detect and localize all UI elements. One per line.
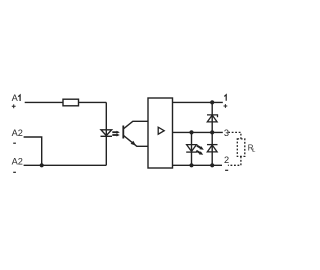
terminal label 1 bbox=[224, 95, 226, 101]
branch wire TVS column bbox=[211, 102, 213, 165]
amplifier triangle bbox=[158, 127, 164, 134]
svg-text:A: A bbox=[12, 93, 19, 103]
terminal label 3 bbox=[224, 128, 229, 138]
wire box to terminal 1 bbox=[173, 101, 223, 103]
status LED D3 bbox=[186, 145, 197, 153]
resistor R1 bbox=[63, 99, 79, 106]
junction dots bbox=[40, 100, 215, 167]
wire box to terminal 2 bbox=[173, 164, 223, 166]
terminal label A1 bbox=[12, 93, 19, 103]
wire A2 lower to LED column bbox=[24, 164, 107, 166]
branch wire status LED column bbox=[191, 132, 193, 165]
polarity minus A2 lower bbox=[13, 171, 16, 173]
TVS diode D2 (between 1 and 3) bbox=[207, 115, 218, 122]
polarity plus A1 bbox=[12, 104, 16, 108]
driver U1 box bbox=[148, 98, 173, 168]
terminal label 2 bbox=[224, 155, 229, 165]
svg-text:L: L bbox=[252, 148, 255, 154]
wire resistor to LED column bbox=[79, 101, 107, 103]
load resistor RL label bbox=[248, 143, 256, 154]
LED emission arrows bbox=[112, 131, 120, 137]
polarity minus terminal 2 bbox=[225, 169, 228, 171]
wire A2 upper bbox=[24, 137, 42, 165]
svg-text:A2: A2 bbox=[12, 157, 23, 167]
optocoupler LED bbox=[101, 130, 113, 137]
svg-text:3: 3 bbox=[224, 128, 229, 138]
load resistor RL dashed box bbox=[237, 139, 245, 157]
polarity minus A2 upper bbox=[13, 142, 16, 144]
phototransistor Q1 bbox=[123, 121, 148, 146]
wire A1 to resistor bbox=[25, 101, 63, 103]
terminal label A2 lower bbox=[12, 157, 23, 167]
TVS diode D4 (between 3 and 2) bbox=[207, 145, 218, 152]
dashed wire terminal 3 to load bbox=[228, 132, 241, 139]
wire box to terminal 3 bbox=[173, 131, 223, 133]
status LED emission arrows bbox=[196, 146, 204, 155]
polarity plus terminal 1 bbox=[224, 104, 228, 108]
terminal label A2 upper bbox=[12, 128, 23, 138]
wire LED column vertical bbox=[105, 102, 107, 165]
svg-text:2: 2 bbox=[224, 155, 229, 165]
svg-text:A2: A2 bbox=[12, 128, 23, 138]
dashed wire load to terminal 2 bbox=[228, 156, 241, 165]
